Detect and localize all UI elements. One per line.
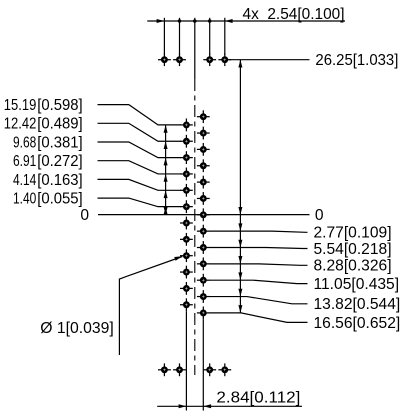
left chain arrow 15.19 [164, 125, 168, 133]
svg-text:[0.598]: [0.598] [37, 97, 82, 114]
top dim dot 2 [193, 19, 197, 23]
top dimension line (4x 2.54) [147, 20, 345, 22]
left label 4.14 [0.163] [13, 172, 83, 189]
pad right column 11 [197, 274, 210, 287]
diameter leader [119, 257, 182, 356]
svg-text:1.40: 1.40 [13, 191, 37, 208]
left chain arrow down at zero [164, 207, 168, 215]
svg-text:Ø 1[0.039]: Ø 1[0.039] [40, 320, 114, 337]
top dim dot 3 [208, 19, 212, 23]
left chain arrow 1.40 [164, 207, 168, 215]
right leader 13.82 [210, 297, 308, 304]
bottom dim arrow left [179, 404, 187, 408]
pad right column 5 [197, 176, 210, 189]
pad right column 1 [197, 110, 210, 123]
bottom dim arrow right [203, 404, 211, 408]
pad left column 4 [180, 168, 193, 181]
26.25 arrow down at zero [238, 207, 242, 215]
pad left column 5 [180, 184, 193, 197]
left leader 9.68 [98, 142, 182, 158]
svg-text:8.28[0.326]: 8.28[0.326] [314, 258, 392, 275]
left chain arrow 4.14 [164, 190, 168, 198]
svg-text:5.54[0.218]: 5.54[0.218] [314, 241, 392, 258]
pad left column 8 [180, 233, 193, 246]
left leader 6.91 [98, 161, 182, 174]
pad right column 13 [197, 307, 210, 320]
svg-text:0: 0 [80, 207, 89, 224]
right leader 5.54 [210, 248, 308, 249]
pad right column 10 [197, 257, 210, 270]
pad top row 3 [203, 53, 216, 66]
svg-text:4.14: 4.14 [13, 172, 37, 189]
top extension line 1 [163, 18, 165, 55]
pad left column 11 [180, 282, 193, 295]
pad right column 9 [197, 241, 210, 254]
left leader 15.19 [98, 105, 182, 125]
left leader 1.40 [98, 198, 182, 207]
pad right column 4 [197, 159, 210, 172]
zero datum line [98, 214, 310, 216]
pad top row 4 [218, 53, 231, 66]
pad right column 8 [197, 225, 210, 238]
left label 15.19 [0.598] [4, 97, 83, 114]
svg-text:11.05[0.435]: 11.05[0.435] [314, 276, 400, 293]
svg-text:16.56[0.652]: 16.56[0.652] [314, 315, 401, 332]
right leader 2.77 [210, 231, 308, 232]
svg-text:2.84[0.112]: 2.84[0.112] [216, 390, 300, 407]
svg-text:[0.163]: [0.163] [37, 172, 82, 189]
svg-text:0: 0 [315, 207, 324, 224]
pad left column 10 [180, 266, 193, 279]
pad right column 6 [197, 192, 210, 205]
right chain arrow 5.54 [238, 240, 242, 248]
right leader 16.56 [210, 313, 308, 323]
left label 9.68 [0.381] [13, 134, 83, 151]
pad right column 2 [197, 127, 210, 140]
pad bottom row 1 [158, 363, 171, 376]
left chain arrow 12.42 [164, 141, 168, 149]
svg-text:13.82[0.544]: 13.82[0.544] [314, 296, 401, 313]
left chain dimension line [165, 125, 167, 215]
svg-text:2.77[0.109]: 2.77[0.109] [314, 225, 392, 242]
pad bottom row 4 [218, 363, 231, 376]
top extension line 4 [224, 18, 226, 55]
top dim arrow left [157, 19, 165, 23]
pad top row 2 [173, 53, 186, 66]
pad top row 1 [158, 53, 171, 66]
right chain arrow 16.56 [238, 305, 242, 313]
right chain arrow 11.05 [238, 272, 242, 280]
pad right column 12 [197, 290, 210, 303]
right chain arrow 2.77 [238, 223, 242, 231]
pad left column 2 [180, 135, 193, 148]
right chain dimension line [239, 60, 241, 313]
svg-text:[0.272]: [0.272] [37, 153, 82, 170]
pad bottom row 2 [173, 363, 186, 376]
top dim dot 1 [178, 19, 182, 23]
bottom extension line left [185, 311, 187, 410]
diameter leader arrow [174, 256, 182, 260]
pad right column 7 [197, 208, 210, 221]
right leader 11.05 [210, 280, 308, 283]
left chain arrow 6.91 [164, 174, 168, 182]
top extension line 3 [209, 18, 211, 55]
top dim arrow right [225, 19, 233, 23]
left chain arrow 9.68 [164, 158, 168, 166]
pad left column 3 [180, 151, 193, 164]
pad left column 12 [180, 298, 193, 311]
bottom dimension line [157, 405, 302, 407]
svg-text:[0.381]: [0.381] [37, 134, 82, 151]
svg-text:[0.489]: [0.489] [37, 116, 82, 133]
pad left column 1 [180, 119, 193, 132]
bottom extension line right [202, 319, 204, 410]
svg-text:[0.055]: [0.055] [37, 191, 82, 208]
svg-text:26.25[1.033]: 26.25[1.033] [315, 52, 398, 69]
top extension line 2 [179, 18, 181, 55]
left leader 4.14 [98, 179, 182, 190]
svg-text:9.68: 9.68 [13, 134, 36, 151]
pad bottom row 3 [203, 363, 216, 376]
right leader 8.28 [210, 264, 308, 265]
left label 1.40 [0.055] [13, 191, 83, 208]
right chain arrow 8.28 [238, 256, 242, 264]
pad left column 9 [180, 249, 193, 262]
26.25 level line [230, 59, 310, 61]
left label 12.42 [0.489] [4, 116, 83, 133]
left label 6.91 [0.272] [13, 153, 83, 170]
svg-text:12.42: 12.42 [4, 116, 37, 133]
26.25 arrow up [238, 60, 242, 68]
svg-text:4x 2.54[0.100]: 4x 2.54[0.100] [243, 6, 345, 23]
right chain arrow 13.82 [238, 289, 242, 297]
pad right column 3 [197, 143, 210, 156]
left leader 12.42 [98, 123, 182, 141]
svg-text:6.91: 6.91 [13, 153, 36, 170]
centerline (vertical datum) [194, 18, 196, 375]
pad left column 7 [180, 217, 193, 230]
svg-text:15.19: 15.19 [4, 97, 37, 114]
pad left column 6 [180, 200, 193, 213]
